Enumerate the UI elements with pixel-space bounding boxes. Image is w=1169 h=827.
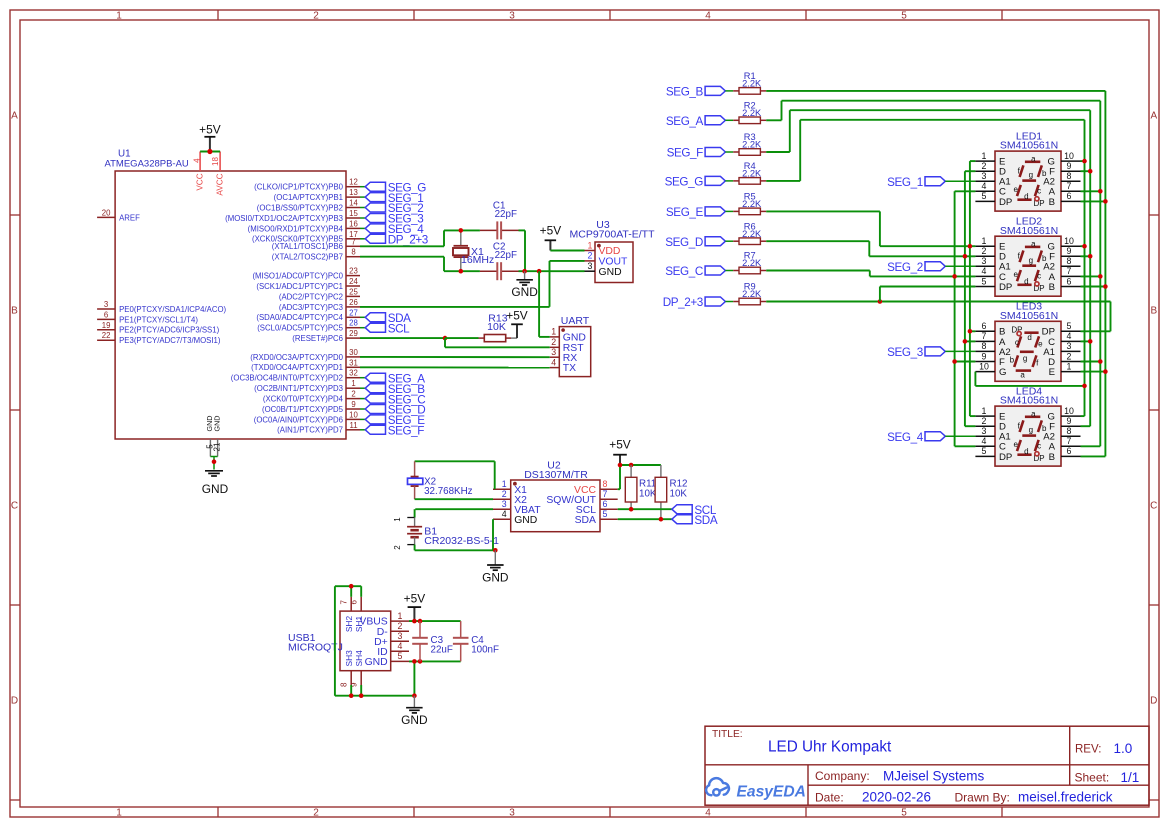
svg-text:22pF: 22pF: [495, 209, 517, 220]
svg-text:2: 2: [351, 390, 355, 399]
svg-text:PE0(PTCXY/SDA1/ICP4/ACO): PE0(PTCXY/SDA1/ICP4/ACO): [119, 305, 226, 314]
svg-text:DP: DP: [999, 197, 1012, 208]
svg-text:7: 7: [340, 600, 349, 605]
svg-text:+5V: +5V: [199, 122, 221, 136]
svg-text:8: 8: [340, 682, 349, 687]
svg-text:6: 6: [1067, 191, 1072, 201]
svg-text:3: 3: [551, 347, 556, 357]
svg-text:GND: GND: [365, 657, 388, 668]
svg-text:GND: GND: [401, 713, 428, 727]
svg-text:31: 31: [349, 358, 358, 367]
svg-text:4: 4: [398, 641, 403, 651]
svg-text:(AIN1/PTCXY)PD7: (AIN1/PTCXY)PD7: [277, 426, 343, 435]
svg-text:B: B: [1049, 452, 1055, 463]
svg-text:c: c: [1015, 338, 1019, 347]
svg-text:e: e: [1013, 270, 1018, 279]
svg-text:d: d: [1027, 333, 1031, 342]
svg-text:(MISO0/RXD1/PTCXY)PB4: (MISO0/RXD1/PTCXY)PB4: [248, 224, 344, 233]
svg-text:14: 14: [349, 199, 358, 208]
svg-text:g: g: [1029, 171, 1033, 180]
svg-text:2.2K: 2.2K: [742, 229, 762, 239]
svg-text:MJeisel Systems: MJeisel Systems: [883, 769, 985, 784]
svg-text:(XCK0/T0/PTCXY)PD4: (XCK0/T0/PTCXY)PD4: [263, 395, 344, 404]
svg-text:(OC3B/OC4B/INT0/PTCXY)PD2: (OC3B/OC4B/INT0/PTCXY)PD2: [231, 374, 343, 383]
svg-text:SH4: SH4: [354, 650, 364, 667]
svg-text:9: 9: [1067, 161, 1072, 171]
svg-text:3: 3: [1067, 341, 1072, 351]
svg-text:GND: GND: [563, 333, 586, 344]
svg-text:4: 4: [1067, 331, 1072, 341]
svg-text:20: 20: [102, 208, 111, 217]
svg-text:30: 30: [349, 348, 358, 357]
svg-text:16: 16: [349, 219, 358, 228]
svg-text:21: 21: [213, 442, 222, 451]
svg-text:c: c: [1037, 441, 1041, 450]
svg-text:GND: GND: [514, 515, 537, 526]
svg-text:SEG_F: SEG_F: [388, 425, 425, 438]
svg-text:10K: 10K: [670, 489, 688, 500]
svg-text:Date:: Date:: [815, 791, 844, 805]
svg-text:(SCK1/ADC1/PTCY)PC1: (SCK1/ADC1/PTCY)PC1: [256, 282, 343, 291]
svg-text:4: 4: [192, 158, 201, 163]
svg-text:a: a: [1020, 370, 1025, 379]
svg-text:3: 3: [982, 171, 987, 181]
svg-text:SM410561N: SM410561N: [1000, 140, 1058, 152]
svg-text:9: 9: [982, 351, 987, 361]
svg-text:6: 6: [1067, 446, 1072, 456]
svg-text:2.2K: 2.2K: [742, 258, 762, 268]
svg-text:32.768KHz: 32.768KHz: [424, 486, 473, 497]
svg-text:GND: GND: [511, 285, 538, 299]
svg-text:18: 18: [211, 157, 220, 166]
svg-text:PE1(PTCXY/SCL1/T4): PE1(PTCXY/SCL1/T4): [119, 315, 198, 324]
svg-text:1: 1: [393, 517, 402, 522]
svg-text:(OC0B/T1/PTCXY)PD5: (OC0B/T1/PTCXY)PD5: [262, 405, 344, 414]
svg-text:+5V: +5V: [540, 223, 562, 237]
svg-text:3: 3: [982, 426, 987, 436]
svg-text:b: b: [1042, 424, 1047, 433]
svg-text:23: 23: [349, 267, 358, 276]
svg-text:1: 1: [588, 240, 593, 250]
svg-text:+5V: +5V: [609, 438, 631, 452]
svg-text:(OC1A/PTCXY)PB1: (OC1A/PTCXY)PB1: [274, 193, 343, 202]
svg-text:5: 5: [982, 191, 987, 201]
svg-text:2.2K: 2.2K: [742, 79, 762, 89]
svg-text:1/1: 1/1: [1121, 770, 1140, 785]
svg-text:2.2K: 2.2K: [742, 140, 762, 150]
svg-text:D: D: [1150, 695, 1157, 706]
svg-text:5: 5: [901, 808, 907, 819]
svg-text:2: 2: [502, 489, 507, 499]
svg-text:6: 6: [603, 499, 608, 509]
svg-text:2: 2: [982, 161, 987, 171]
svg-text:3: 3: [588, 261, 593, 271]
svg-text:a: a: [1031, 154, 1036, 163]
svg-text:e: e: [1013, 440, 1018, 449]
svg-text:16MHz: 16MHz: [461, 254, 494, 266]
svg-text:9: 9: [1067, 416, 1072, 426]
svg-text:B: B: [1049, 197, 1055, 208]
svg-text:meisel.frederick: meisel.frederick: [1018, 790, 1113, 805]
svg-text:B: B: [11, 305, 18, 316]
svg-text:(TXD0/OC4A/PTCXY)PD1: (TXD0/OC4A/PTCXY)PD1: [251, 363, 343, 372]
svg-text:d: d: [1024, 447, 1028, 456]
svg-text:e: e: [1013, 185, 1018, 194]
svg-text:2020-02-26: 2020-02-26: [862, 790, 931, 805]
svg-text:4: 4: [502, 509, 507, 519]
svg-text:100nF: 100nF: [471, 645, 499, 656]
svg-text:2: 2: [982, 246, 987, 256]
svg-text:PE2(PTCY/ADC6/ICP3/SS1): PE2(PTCY/ADC6/ICP3/SS1): [119, 326, 219, 335]
svg-text:1: 1: [116, 808, 122, 819]
svg-text:Sheet:: Sheet:: [1075, 771, 1110, 785]
svg-text:A: A: [11, 110, 18, 121]
svg-text:B: B: [1150, 305, 1157, 316]
svg-text:TITLE:: TITLE:: [712, 729, 743, 740]
svg-text:DP: DP: [999, 282, 1012, 293]
svg-text:SH2: SH2: [344, 616, 354, 633]
svg-text:(RXD0/OC3A/PTCXY)PD0: (RXD0/OC3A/PTCXY)PD0: [250, 353, 343, 362]
svg-text:3: 3: [982, 256, 987, 266]
svg-text:1: 1: [398, 611, 403, 621]
svg-text:GND: GND: [202, 482, 229, 496]
svg-text:LED Uhr Kompakt: LED Uhr Kompakt: [768, 739, 892, 756]
svg-text:a: a: [1031, 409, 1036, 418]
svg-text:22: 22: [102, 331, 111, 340]
svg-text:2.2K: 2.2K: [742, 108, 762, 118]
svg-text:2: 2: [398, 621, 403, 631]
svg-text:10: 10: [1064, 406, 1074, 416]
svg-text:7: 7: [1067, 266, 1072, 276]
svg-text:29: 29: [349, 329, 358, 338]
svg-text:g: g: [1029, 256, 1033, 265]
svg-text:2.2K: 2.2K: [742, 169, 762, 179]
svg-text:SEG_G: SEG_G: [665, 176, 704, 189]
svg-text:SEG_A: SEG_A: [666, 115, 704, 128]
svg-text:8: 8: [351, 248, 355, 257]
svg-text:RX: RX: [563, 353, 578, 364]
svg-text:SCL: SCL: [388, 322, 410, 335]
svg-text:5: 5: [982, 446, 987, 456]
svg-text:(XTAL1/TOSC1)PB6: (XTAL1/TOSC1)PB6: [272, 242, 343, 251]
svg-text:2: 2: [551, 337, 556, 347]
svg-text:32: 32: [349, 369, 358, 378]
svg-text:6: 6: [350, 600, 359, 605]
svg-text:a: a: [1031, 239, 1036, 248]
svg-text:1: 1: [982, 406, 987, 416]
svg-text:(OC2B/INT1/PTCXY)PD3: (OC2B/INT1/PTCXY)PD3: [254, 384, 343, 393]
svg-text:SEG_2: SEG_2: [887, 261, 923, 274]
svg-text:11: 11: [349, 421, 357, 430]
svg-text:DP_2+3: DP_2+3: [388, 234, 428, 247]
svg-text:Company:: Company:: [815, 769, 870, 783]
svg-text:b: b: [1042, 254, 1047, 263]
svg-text:DP_2+3: DP_2+3: [663, 296, 703, 309]
svg-text:5: 5: [603, 509, 608, 519]
svg-text:8: 8: [1067, 171, 1072, 181]
svg-text:28: 28: [349, 319, 358, 328]
svg-text:8: 8: [603, 479, 608, 489]
svg-text:25: 25: [349, 287, 358, 296]
svg-text:3: 3: [502, 499, 507, 509]
svg-text:(RESET#)PC6: (RESET#)PC6: [292, 334, 343, 343]
svg-text:8: 8: [982, 341, 987, 351]
svg-text:c: c: [1037, 272, 1041, 281]
svg-text:UART: UART: [561, 315, 590, 327]
svg-text:10: 10: [349, 410, 358, 419]
svg-text:3: 3: [104, 300, 108, 309]
svg-text:PE3(PTCY/ADC7/T3/MOSI1): PE3(PTCY/ADC7/T3/MOSI1): [119, 336, 221, 345]
svg-text:6: 6: [104, 310, 108, 319]
svg-text:10K: 10K: [639, 489, 657, 500]
svg-text:2.2K: 2.2K: [742, 199, 762, 209]
svg-text:8: 8: [1067, 256, 1072, 266]
svg-text:C: C: [11, 500, 18, 511]
svg-text:SDA: SDA: [694, 514, 717, 527]
svg-text:10K: 10K: [487, 321, 506, 333]
svg-text:SEG_3: SEG_3: [887, 346, 923, 359]
svg-text:MCP9700AT-E/TT: MCP9700AT-E/TT: [570, 229, 656, 241]
svg-text:3: 3: [509, 11, 515, 22]
svg-text:22pF: 22pF: [495, 250, 517, 261]
svg-text:SH1: SH1: [354, 616, 364, 633]
svg-text:g: g: [1029, 426, 1033, 435]
svg-text:5: 5: [1067, 321, 1072, 331]
svg-text:VCC: VCC: [195, 173, 204, 190]
svg-text:DP: DP: [999, 452, 1012, 463]
svg-text:A: A: [1150, 110, 1157, 121]
svg-text:e: e: [1038, 340, 1043, 349]
svg-text:b: b: [1042, 169, 1047, 178]
svg-text:4: 4: [551, 357, 556, 367]
svg-text:1.0: 1.0: [1114, 741, 1133, 756]
svg-text:2: 2: [1067, 351, 1072, 361]
svg-text:VDD: VDD: [599, 246, 621, 257]
svg-text:7: 7: [351, 237, 355, 246]
svg-text:Drawn By:: Drawn By:: [955, 791, 1010, 805]
svg-text:1: 1: [502, 479, 507, 489]
svg-text:SEG_C: SEG_C: [665, 265, 703, 278]
svg-text:(MOSI0/TXD1/OC2A/PTCXY)PB3: (MOSI0/TXD1/OC2A/PTCXY)PB3: [225, 214, 343, 223]
svg-text:19: 19: [102, 321, 111, 330]
svg-text:(MISO1/ADC0/PTCY)PC0: (MISO1/ADC0/PTCY)PC0: [252, 272, 343, 281]
svg-text:SH3: SH3: [344, 650, 354, 667]
svg-text:4: 4: [705, 11, 711, 22]
svg-text:6: 6: [1067, 276, 1072, 286]
svg-text:4: 4: [982, 181, 987, 191]
svg-text:G: G: [999, 367, 1006, 378]
svg-text:DS1307M/TR: DS1307M/TR: [524, 469, 588, 481]
svg-text:3: 3: [509, 808, 515, 819]
svg-text:2: 2: [393, 545, 402, 550]
svg-text:SM410561N: SM410561N: [1000, 310, 1058, 322]
svg-text:GND: GND: [599, 267, 622, 278]
svg-text:CR2032-BS-5-1: CR2032-BS-5-1: [424, 535, 499, 547]
svg-text:1: 1: [351, 379, 355, 388]
svg-text:d: d: [1024, 277, 1028, 286]
svg-text:1: 1: [551, 327, 556, 337]
svg-text:4: 4: [982, 436, 987, 446]
svg-text:GND: GND: [212, 416, 221, 432]
svg-text:SEG_1: SEG_1: [887, 176, 923, 189]
svg-text:10: 10: [1064, 236, 1074, 246]
svg-text:(SCL0/ADC5/PTCY)PC5: (SCL0/ADC5/PTCY)PC5: [257, 324, 343, 333]
svg-text:SM410561N: SM410561N: [1000, 395, 1058, 407]
svg-text:10: 10: [1064, 151, 1074, 161]
svg-text:22uF: 22uF: [431, 645, 453, 656]
svg-text:13: 13: [349, 188, 358, 197]
svg-text:9: 9: [351, 400, 355, 409]
svg-text:12: 12: [349, 178, 358, 187]
svg-text:SEG_F: SEG_F: [667, 147, 704, 160]
svg-text:5: 5: [982, 276, 987, 286]
svg-text:REV:: REV:: [1075, 744, 1101, 756]
svg-text:D: D: [11, 695, 18, 706]
svg-text:1: 1: [982, 236, 987, 246]
svg-text:d: d: [1024, 192, 1028, 201]
svg-text:EasyEDA: EasyEDA: [737, 784, 806, 801]
svg-text:B: B: [1049, 282, 1055, 293]
svg-text:g: g: [1023, 354, 1027, 363]
svg-text:C: C: [1150, 500, 1157, 511]
svg-text:27: 27: [349, 308, 358, 317]
svg-text:1: 1: [982, 151, 987, 161]
svg-text:AVCC: AVCC: [215, 173, 224, 195]
svg-text:4: 4: [982, 266, 987, 276]
svg-text:b: b: [1010, 356, 1015, 365]
svg-text:1: 1: [116, 11, 122, 22]
svg-text:(OC0A/AIN0/PTCXY)PD6: (OC0A/AIN0/PTCXY)PD6: [254, 415, 343, 424]
svg-text:(CLKO/ICP1/PTCXY)PB0: (CLKO/ICP1/PTCXY)PB0: [254, 183, 343, 192]
svg-text:SEG_E: SEG_E: [666, 206, 704, 219]
svg-text:5: 5: [901, 11, 907, 22]
svg-text:AREF: AREF: [119, 213, 140, 222]
svg-text:2: 2: [313, 11, 319, 22]
svg-text:8: 8: [1067, 426, 1072, 436]
svg-text:2: 2: [313, 808, 319, 819]
svg-text:+5V: +5V: [506, 309, 528, 323]
svg-text:7: 7: [1067, 181, 1072, 191]
svg-text:GND: GND: [482, 570, 509, 584]
svg-text:24: 24: [349, 277, 358, 286]
svg-text:(ADC2/PTCY)PC2: (ADC2/PTCY)PC2: [279, 292, 343, 301]
svg-text:6: 6: [982, 321, 987, 331]
svg-text:9: 9: [1067, 246, 1072, 256]
svg-text:SEG_4: SEG_4: [887, 431, 924, 444]
svg-text:7: 7: [1067, 436, 1072, 446]
svg-text:10: 10: [979, 361, 989, 371]
svg-text:1: 1: [1067, 361, 1072, 371]
svg-text:2: 2: [588, 251, 593, 261]
svg-text:26: 26: [349, 298, 358, 307]
svg-text:(XTAL2/TOSC2)PB7: (XTAL2/TOSC2)PB7: [272, 253, 343, 262]
svg-text:2.2K: 2.2K: [742, 289, 762, 299]
svg-text:7: 7: [603, 489, 608, 499]
svg-text:SEG_B: SEG_B: [666, 86, 704, 99]
svg-text:(SDA0/ADC4/PTCY)PC4: (SDA0/ADC4/PTCY)PC4: [256, 313, 343, 322]
svg-text:3: 3: [398, 631, 403, 641]
svg-text:ATMEGA328PB-AU: ATMEGA328PB-AU: [105, 158, 189, 169]
svg-text:TX: TX: [563, 363, 576, 374]
svg-text:5: 5: [398, 651, 403, 661]
svg-text:(OC1B/SS0/PTCXY)PB2: (OC1B/SS0/PTCXY)PB2: [257, 203, 343, 212]
svg-text:4: 4: [705, 808, 711, 819]
svg-text:SEG_D: SEG_D: [665, 236, 703, 249]
svg-text:SDA: SDA: [575, 515, 596, 526]
svg-text:SM410561N: SM410561N: [1000, 225, 1058, 237]
svg-text:7: 7: [982, 331, 987, 341]
svg-text:(ADC3/PTCY)PC3: (ADC3/PTCY)PC3: [279, 303, 343, 312]
svg-text:+5V: +5V: [404, 591, 426, 605]
svg-text:c: c: [1037, 186, 1041, 195]
svg-text:15: 15: [349, 209, 358, 218]
svg-text:2: 2: [982, 416, 987, 426]
svg-text:E: E: [1049, 367, 1055, 378]
